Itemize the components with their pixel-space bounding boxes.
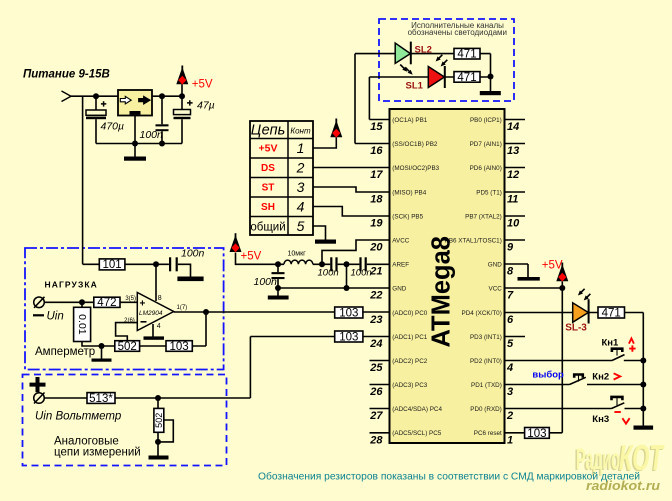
- svg-text:+5V: +5V: [259, 143, 278, 155]
- svg-text:PD5 (T1): PD5 (T1): [476, 189, 502, 196]
- svg-text:19: 19: [370, 218, 383, 230]
- svg-text:1: 1: [507, 434, 513, 446]
- svg-text:PD0 (RXD): PD0 (RXD): [470, 406, 502, 413]
- svg-text:470µ: 470µ: [101, 121, 125, 133]
- svg-text:4: 4: [506, 362, 513, 374]
- svg-text:103: 103: [339, 308, 358, 320]
- svg-text:+5V: +5V: [192, 79, 213, 91]
- svg-text:Конт: Конт: [290, 127, 311, 136]
- svg-text:GND: GND: [392, 285, 406, 292]
- svg-text:103: 103: [527, 428, 546, 440]
- svg-text:Обозначения резисторов показан: Обозначения резисторов показаны в соотве…: [258, 471, 640, 483]
- svg-text:Uin Вольтметр: Uin Вольтметр: [35, 411, 122, 423]
- svg-text:LM2904: LM2904: [139, 310, 163, 317]
- svg-text:(ADC5/SCL) PC5: (ADC5/SCL) PC5: [392, 430, 441, 437]
- svg-text:VCC: VCC: [489, 285, 503, 292]
- svg-text:4: 4: [297, 199, 305, 215]
- svg-text:15: 15: [370, 121, 383, 133]
- svg-text:Кн3: Кн3: [592, 414, 609, 425]
- svg-text:472: 472: [97, 297, 116, 309]
- svg-text:3(5): 3(5): [125, 296, 136, 302]
- svg-text:(ADC3) PC3: (ADC3) PC3: [392, 382, 427, 389]
- svg-text:обозначены светодиодами: обозначены светодиодами: [408, 28, 507, 37]
- svg-text:(ADC1) PC1: (ADC1) PC1: [392, 334, 427, 341]
- svg-text:23: 23: [369, 314, 382, 326]
- svg-text:26: 26: [369, 386, 383, 398]
- svg-text:100n: 100n: [181, 248, 205, 260]
- svg-text:100n: 100n: [318, 268, 339, 279]
- svg-text:PD7 (AIN1): PD7 (AIN1): [470, 141, 502, 148]
- svg-text:103: 103: [170, 341, 189, 353]
- svg-text:0.01: 0.01: [76, 314, 88, 335]
- svg-text:22: 22: [369, 290, 382, 302]
- svg-text:2: 2: [296, 160, 305, 176]
- svg-text:13: 13: [507, 145, 519, 157]
- svg-text:(SS/OC1B) PB2: (SS/OC1B) PB2: [392, 141, 438, 148]
- svg-text:PC6 reset: PC6 reset: [474, 430, 502, 437]
- svg-text:цепи измерений: цепи измерений: [54, 447, 141, 459]
- svg-text:502: 502: [154, 413, 164, 428]
- svg-text:471: 471: [457, 49, 476, 61]
- svg-text:17: 17: [370, 169, 383, 181]
- svg-text:+5V: +5V: [241, 251, 262, 263]
- svg-text:AREF: AREF: [392, 261, 409, 268]
- svg-text:5: 5: [297, 218, 305, 234]
- svg-text:общий: общий: [250, 222, 285, 234]
- svg-text:(ADC0) PC0: (ADC0) PC0: [392, 310, 427, 317]
- svg-text:AVCC: AVCC: [392, 237, 409, 244]
- svg-text:(MISO) PB4: (MISO) PB4: [392, 189, 426, 196]
- svg-text:11: 11: [507, 194, 518, 206]
- svg-text:3: 3: [297, 179, 305, 195]
- svg-text:8: 8: [507, 266, 514, 278]
- svg-text:28: 28: [369, 434, 383, 446]
- svg-text:Амперметр: Амперметр: [35, 346, 95, 358]
- svg-text:SL-3: SL-3: [565, 323, 587, 334]
- svg-text:PD4 (XCK/T0): PD4 (XCK/T0): [462, 310, 502, 317]
- svg-text:ST: ST: [262, 183, 275, 194]
- svg-text:+5V: +5V: [542, 260, 563, 272]
- svg-text:+: +: [140, 299, 146, 310]
- svg-text:24: 24: [369, 338, 382, 350]
- svg-text:ATMega8: ATMega8: [428, 236, 456, 347]
- svg-text:8: 8: [158, 295, 162, 302]
- svg-text:5: 5: [507, 338, 514, 350]
- svg-text:12: 12: [507, 169, 519, 181]
- svg-text:9: 9: [507, 242, 514, 254]
- svg-text:2(6): 2(6): [124, 318, 135, 324]
- svg-text:PB7 (XTAL2): PB7 (XTAL2): [465, 213, 502, 220]
- svg-text:10: 10: [507, 218, 520, 230]
- svg-text:PD3 (INT1): PD3 (INT1): [470, 334, 502, 341]
- svg-text:103: 103: [339, 332, 358, 344]
- svg-text:(ADC2) PC2: (ADC2) PC2: [392, 358, 427, 365]
- svg-text:PD6 (AIN0): PD6 (AIN0): [470, 165, 502, 172]
- svg-text:27: 27: [369, 410, 383, 422]
- svg-text:10мкг: 10мкг: [288, 251, 307, 258]
- svg-text:PD1 (TXD): PD1 (TXD): [471, 382, 502, 389]
- svg-text:Цепь: Цепь: [251, 123, 286, 139]
- svg-text:100n: 100n: [351, 268, 372, 279]
- svg-text:16: 16: [370, 145, 383, 157]
- svg-text:PB0 (ICP1): PB0 (ICP1): [470, 117, 502, 124]
- svg-text:(OC1A) PB1: (OC1A) PB1: [392, 117, 427, 124]
- svg-text:2: 2: [506, 410, 513, 422]
- svg-text:Кн1: Кн1: [602, 337, 620, 348]
- svg-text:47µ: 47µ: [197, 100, 215, 112]
- svg-text:DS: DS: [261, 163, 275, 174]
- svg-text:471: 471: [457, 72, 476, 84]
- svg-text:Питание 9-15В: Питание 9-15В: [23, 69, 110, 81]
- svg-text:SH: SH: [261, 202, 275, 213]
- svg-text:Uin: Uin: [47, 311, 64, 323]
- svg-text:Кн2: Кн2: [592, 372, 609, 383]
- svg-text:(ADC4/SDA) PC4: (ADC4/SDA) PC4: [392, 406, 442, 413]
- svg-text:100n: 100n: [254, 276, 278, 288]
- svg-text:1: 1: [297, 140, 305, 156]
- svg-text:18: 18: [370, 194, 383, 206]
- svg-text:GND: GND: [488, 261, 502, 268]
- svg-text:1(7): 1(7): [177, 305, 188, 311]
- svg-text:6: 6: [507, 314, 514, 326]
- svg-text:(SCK) PB5: (SCK) PB5: [392, 213, 423, 220]
- svg-text:выбор: выбор: [532, 370, 564, 381]
- svg-text:502: 502: [118, 341, 137, 353]
- svg-text:PD2 (INT0): PD2 (INT0): [470, 358, 502, 365]
- svg-text:513*: 513*: [89, 393, 113, 405]
- svg-text:SL1: SL1: [406, 81, 424, 92]
- svg-text:3: 3: [507, 386, 513, 398]
- svg-text:25: 25: [369, 362, 383, 374]
- svg-text:НАГРУЗКА: НАГРУЗКА: [45, 280, 98, 290]
- svg-text:(MOSI/OC2)PB3: (MOSI/OC2)PB3: [392, 165, 439, 172]
- svg-text:101: 101: [103, 259, 122, 271]
- svg-text:471: 471: [602, 308, 621, 320]
- svg-text:20: 20: [369, 242, 383, 254]
- svg-text:7: 7: [507, 290, 514, 302]
- svg-text:SL2: SL2: [415, 44, 432, 55]
- svg-text:100n: 100n: [140, 129, 164, 141]
- svg-text:14: 14: [507, 121, 519, 133]
- svg-text:4: 4: [157, 323, 161, 330]
